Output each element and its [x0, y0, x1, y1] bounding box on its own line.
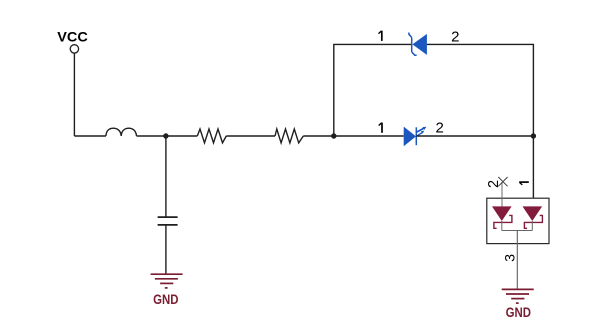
svg-text:2: 2: [486, 180, 502, 188]
svg-text:GND: GND: [506, 304, 531, 320]
pin label 1 of D1 (digit drawn): [379, 31, 382, 41]
svg-text:2: 2: [451, 28, 459, 45]
svg-text:VCC: VCC: [57, 28, 88, 44]
ground GND label (right): [506, 304, 531, 320]
wire inductor to node A: [137, 135, 166, 137]
wire R2 to node B: [303, 135, 334, 137]
resistor R1: [197, 129, 226, 143]
svg-text:GND: GND: [153, 291, 178, 307]
diode D1 zener (top branch, pointing left): [409, 33, 427, 56]
wire node B up and across to D1: [334, 44, 412, 136]
node A junction dot: [163, 133, 168, 138]
wire R1 to R2: [226, 135, 275, 137]
wire node C down to U1 pin 1: [532, 136, 534, 206]
wire node A to R1: [166, 135, 197, 137]
diode D2 LED (bottom branch, pointing right): [404, 127, 427, 147]
U1 internal wire DA cathode to rail: [501, 221, 503, 231]
power port VCC label: [57, 28, 88, 44]
U1 pin 2 stub wire: [501, 182, 503, 206]
ground GND label (left): [153, 291, 178, 307]
pin label 1 of U1 (rotated, digit drawn): [519, 182, 529, 185]
ground symbol GND (right): [502, 289, 534, 303]
capacitor C1: [158, 217, 178, 225]
pin label 2 of D1: [451, 28, 459, 45]
ground symbol GND (left): [151, 274, 183, 288]
U1 internal common rail: [502, 230, 533, 232]
pin label 2 of U1 (rotated): [486, 180, 502, 188]
component U1 box (dual diode array): [487, 198, 549, 243]
U1 internal diode DA (left, cathode-down): [492, 206, 512, 228]
svg-text:2: 2: [436, 120, 444, 137]
node B junction dot: [331, 133, 336, 138]
wire capacitor to ground: [165, 225, 167, 274]
U1 pin 2 no-connect cross: [498, 177, 507, 186]
wire VCC vertical: [73, 53, 75, 136]
svg-text:3: 3: [501, 254, 517, 262]
U1 pin 3 wire to ground: [516, 231, 518, 290]
pin label 2 of D2: [436, 120, 444, 137]
wire node A down to capacitor C1: [165, 136, 167, 217]
wire D1 to right corner and down to node C: [427, 44, 534, 136]
U1 internal diode DB (right, cathode-down): [523, 206, 543, 228]
pin label 3 of U1 (rotated): [501, 254, 517, 262]
wire D2 to node C: [416, 135, 533, 137]
pin label 1 of D2 (digit drawn): [379, 123, 382, 133]
node C junction dot: [531, 133, 536, 138]
U1 internal wire DB cathode to rail: [531, 221, 533, 231]
power port VCC terminal circle: [70, 45, 78, 53]
wire node B to D2 (bottom branch): [334, 135, 404, 137]
wire to inductor: [74, 135, 106, 137]
inductor L1: [106, 128, 137, 136]
resistor R2: [275, 129, 303, 143]
